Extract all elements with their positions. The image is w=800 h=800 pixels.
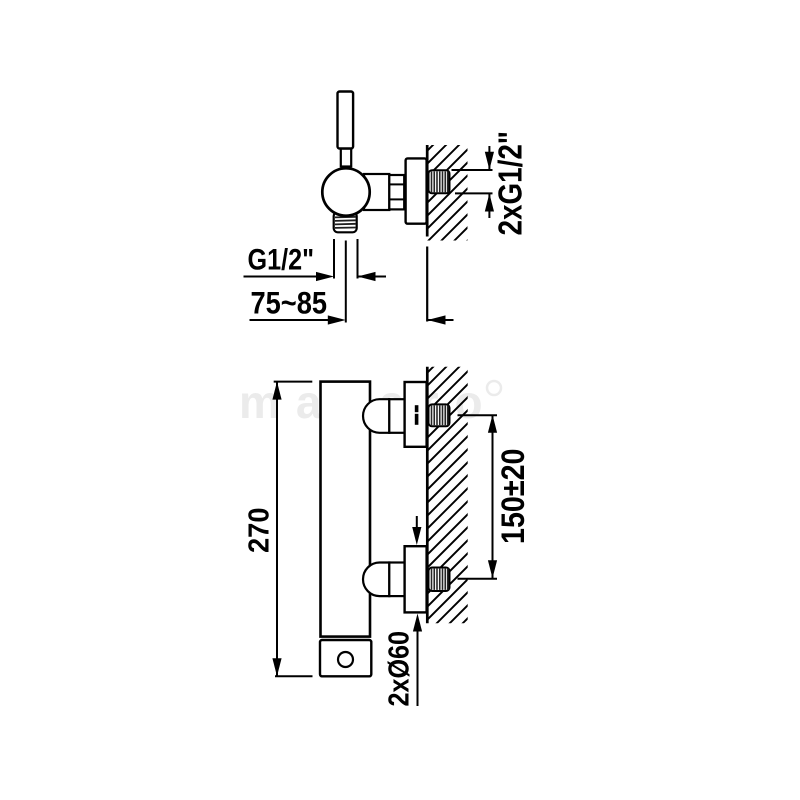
dimension G1/2" line left — [244, 276, 331, 278]
cap screw circle — [338, 652, 353, 667]
dimension 270 line — [276, 382, 278, 677]
slot marks on upper flange — [415, 405, 419, 412]
svg-text:75~85: 75~85 — [251, 284, 328, 320]
bottom end cap of bar — [320, 640, 371, 676]
dimension 2xG1/2" arrow tails — [488, 146, 490, 170]
lower wall flange — [405, 546, 427, 612]
outlet thread below valve (top view) — [334, 212, 357, 232]
leader line 2xØ60 — [417, 630, 419, 706]
arrow right at outlet left edge — [316, 272, 334, 281]
handle stem — [341, 149, 351, 167]
valve body circle (top view) — [322, 168, 369, 215]
shower bar body (bottom view) — [321, 382, 371, 637]
dimension 75~85 line — [250, 319, 343, 321]
wall centerline dashed extension (top view) — [426, 247, 428, 322]
arrow up at upper centerline — [488, 415, 497, 433]
hex nut (top view) — [389, 175, 404, 209]
valve body side rect (top view) — [364, 174, 389, 210]
upper wall flange — [405, 382, 427, 447]
svg-text:2xG1/2": 2xG1/2" — [491, 131, 528, 236]
upper nipple centerline / 150 extension — [458, 414, 498, 416]
svg-text:150±20: 150±20 — [495, 449, 531, 545]
dimension 270 extension top — [274, 381, 313, 383]
arrow left at outlet right edge — [358, 272, 376, 281]
dimension 75~85 wall tail — [428, 319, 454, 321]
arrow down at upper G1/2 line — [485, 152, 494, 170]
extension line outlet right edge — [357, 239, 359, 279]
arrow right at outlet centerline — [328, 315, 346, 324]
wall face line (bottom view) — [426, 367, 429, 624]
arrow down at lower centerline — [488, 560, 497, 578]
lower bell connector — [363, 563, 389, 597]
lower nipple centerline / 150 extension — [458, 578, 498, 580]
svg-text:270: 270 — [244, 508, 276, 554]
lower neck — [389, 563, 405, 597]
arrow left at wall face — [428, 315, 446, 324]
arrow up at bar top — [272, 382, 281, 400]
svg-text:2xØ60: 2xØ60 — [384, 631, 416, 707]
wall hatching (bottom view) — [415, 315, 485, 684]
extension line outlet centerline — [345, 241, 347, 323]
wall flange (top view) — [406, 158, 427, 223]
arrow up at lower G1/2 line — [485, 194, 494, 212]
dimension 270 extension bottom — [275, 675, 313, 677]
upper bell connector — [363, 399, 389, 433]
threaded nipple upper (bottom view) — [429, 404, 450, 426]
wall face line (top view) — [426, 145, 429, 237]
position pointer arrow above lower flange — [416, 516, 418, 530]
extension line outlet left edge — [333, 239, 335, 279]
threaded nipple lower (bottom view) — [429, 568, 450, 592]
dimension 2xG1/2" extension lines — [452, 169, 493, 171]
dimension 150±20 line — [492, 415, 494, 579]
dimension G1/2" tail right — [358, 276, 387, 278]
threaded nipple (top view, into wall) — [429, 170, 450, 193]
upper neck — [389, 399, 405, 433]
handle grip — [338, 92, 354, 149]
svg-text:G1/2": G1/2" — [248, 244, 315, 277]
arrow down at cap bottom — [272, 658, 281, 676]
watermark maxaro — [239, 376, 501, 428]
wall hatching (top view) — [415, 93, 485, 306]
